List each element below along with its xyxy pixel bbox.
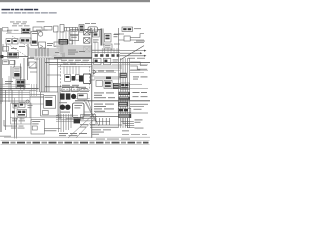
relay box RL1 — [31, 32, 43, 46]
module M2 — [104, 34, 119, 51]
battery G1 — [59, 102, 71, 112]
right cluster low-mid — [120, 83, 129, 89]
right links — [130, 104, 148, 113]
mirror box — [29, 62, 36, 68]
shaded harness wedge left — [34, 54, 62, 60]
right horizontals — [112, 85, 148, 89]
dark cluster right-mid — [113, 83, 120, 89]
junction enclosure JB2 — [11, 103, 32, 124]
relay K1 dark cluster — [3, 27, 31, 33]
right connector dark — [120, 73, 127, 78]
gray bar right of panel — [58, 87, 61, 119]
connector drop wires — [57, 31, 75, 45]
right margin labels — [128, 28, 145, 59]
splice block SP1 — [74, 115, 96, 124]
terminal board B1 — [12, 98, 33, 124]
right cluster C6X3 — [118, 108, 141, 118]
left page-edge shadow — [0, 28, 2, 132]
wire bus left — [0, 44, 42, 66]
harness diagonals — [68, 100, 99, 138]
right step wires mid — [130, 62, 147, 70]
left vertical wires — [11, 58, 28, 90]
module M1 — [93, 30, 100, 43]
footer legend frame — [1, 141, 150, 145]
footer legend strip — [2, 142, 149, 144]
motor M dark cluster — [5, 80, 25, 88]
right step wires — [119, 28, 145, 62]
right cluster mid2 — [118, 102, 128, 107]
link lines — [44, 129, 60, 131]
dark bars pair — [101, 29, 104, 46]
relay K5 — [96, 80, 112, 88]
right cluster C6X2 — [118, 92, 147, 100]
fuse box F1 — [33, 26, 52, 31]
lamp row dark cluster — [62, 88, 88, 92]
junction cluster JB — [60, 45, 65, 57]
low rules — [90, 125, 122, 127]
JB2 labels — [11, 126, 25, 129]
shaded harness region — [55, 45, 92, 57]
right lower wires — [121, 118, 135, 128]
relay K2 dark cluster — [0, 46, 25, 58]
dashed link — [8, 36, 30, 56]
lower-left wires — [0, 90, 44, 130]
power block PB1 — [79, 75, 83, 81]
label box row — [61, 86, 79, 91]
page title line 1 — [2, 9, 39, 11]
main bus A — [54, 57, 92, 59]
harness labels — [68, 50, 85, 55]
diode modules X — [84, 30, 90, 52]
spine vertical — [91, 28, 93, 138]
dark bar at bus — [55, 52, 59, 53]
ECU dashed enclosure — [61, 65, 90, 90]
texture wires — [0, 34, 148, 118]
left lower extra wires — [0, 76, 44, 118]
rule mid-right — [75, 100, 150, 102]
battery labels — [66, 118, 84, 119]
lower drop wires — [4, 118, 16, 138]
right lower labels — [122, 119, 144, 131]
fusible link row — [60, 91, 89, 100]
wires mid-left — [28, 48, 60, 60]
wire bundle vertical — [37, 58, 57, 92]
solenoid SV dark blob — [59, 39, 73, 45]
harness band vertical — [39, 58, 49, 92]
switch S1 — [3, 38, 31, 52]
text block lower — [94, 104, 114, 112]
connector block CN9 — [122, 27, 133, 31]
connector strip J1 — [54, 23, 97, 32]
ground box TO — [31, 120, 44, 134]
relay box RL2 — [39, 42, 62, 48]
shaded band right — [94, 76, 121, 80]
connector housing CN1 — [84, 74, 91, 83]
panel box PB — [41, 92, 58, 116]
lower bundle cluster — [56, 114, 78, 132]
ECU inner boxes — [65, 74, 80, 81]
module drop wires — [95, 42, 117, 54]
cross bus C — [45, 63, 150, 65]
connector block CN1 dark — [91, 76, 95, 80]
bus B left — [0, 89, 44, 91]
sensor boxes left — [3, 60, 15, 65]
fuse labels row — [33, 30, 48, 34]
connector row labels — [12, 24, 30, 27]
ECU bottom labels — [62, 85, 86, 88]
mid horizontal links — [30, 68, 61, 87]
small header notes — [10, 21, 45, 24]
mid-right text rows — [94, 92, 115, 98]
relay boxes right of spine — [92, 58, 122, 71]
top toolbar bar — [0, 0, 150, 2]
starter box ST — [72, 103, 84, 118]
right vertical bundle — [119, 58, 130, 128]
ECU drop wires — [58, 66, 92, 74]
arrow wires right — [120, 50, 146, 57]
drop ticks row — [96, 118, 110, 125]
bottom rule — [0, 136, 150, 138]
lower labels mid — [59, 124, 95, 136]
terminal row T — [95, 54, 120, 57]
label C6X1 — [133, 76, 148, 79]
breaker CB1 — [124, 36, 130, 41]
ECU labels top — [61, 60, 89, 65]
note text right bottom — [96, 138, 130, 141]
page subtitle line 2 — [2, 12, 57, 13]
low text rows — [92, 129, 111, 134]
tiny footer text right — [122, 133, 147, 136]
node A marker — [93, 70, 96, 74]
upper-left label marks — [7, 30, 19, 33]
pump relay P1 — [13, 67, 21, 78]
rule mid-right 2 — [90, 115, 123, 117]
relay R0 rounded — [85, 27, 102, 33]
controller box CB — [70, 30, 79, 41]
mid-right wires — [92, 34, 120, 53]
